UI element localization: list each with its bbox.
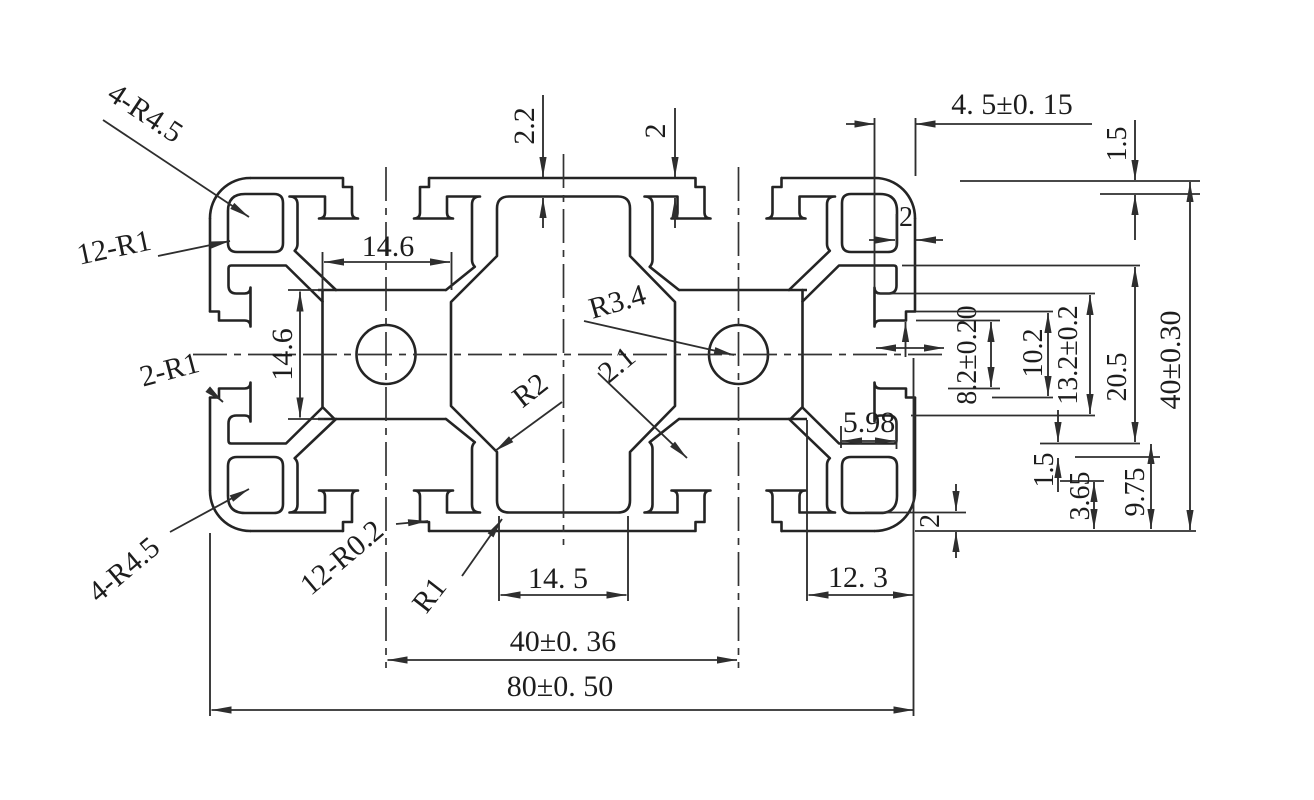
left face lower segment [209,398,212,492]
top face right segment [781,177,875,180]
right end slot lower boundary [803,383,916,444]
left face upper segment [209,218,212,312]
svg-text:14.6: 14.6 [266,328,299,381]
bottom face left segment [250,530,343,533]
svg-text:14.6: 14.6 [362,230,415,263]
dim 5.98 ext lines [840,426,842,448]
svg-text:40±0. 36: 40±0. 36 [510,625,616,658]
right square cavity top edge [679,289,807,292]
top face left segment [250,177,343,180]
dim 14.5 dimension line [501,594,627,596]
bottom face right segment [781,530,875,533]
svg-text:9.75: 9.75 [1120,468,1151,517]
vertical centerline left hole [385,167,387,668]
svg-text:12. 3: 12. 3 [828,561,888,594]
svg-text:20.5: 20.5 [1102,353,1133,402]
top slot 2 left boundary [645,178,711,290]
top slot 1 right boundary [414,178,480,290]
dim 14.6 left dimension line [299,292,301,418]
dim 12.3 ext lines [806,420,808,601]
dim 14.6 left extension lines [288,289,324,291]
label R1 leader [462,519,502,576]
svg-text:14. 5: 14. 5 [528,562,588,595]
label 4-R4.5 bottom-left leader [170,489,249,532]
dim 5.98 dimension line [842,440,895,442]
svg-text:2: 2 [639,124,672,139]
svg-text:1.5: 1.5 [1029,453,1060,488]
middle void boundary [451,197,675,513]
dim 8.2 inner arrow at slot mouth [905,322,907,357]
svg-text:10.2: 10.2 [1018,329,1049,378]
right square cavity bottom edge [679,418,807,421]
bottom slot 1 left boundary [290,419,359,531]
dim 1.5 top callout [1134,120,1136,180]
vertical centerline right hole [738,167,740,668]
dim 13.2 ext lines [877,293,1095,295]
right end slot upper boundary [803,266,916,327]
dim 10.2 ext lines [916,311,1053,313]
dim 8.2 ext lines [916,320,1000,322]
dim 14.6 top extension lines [322,252,324,290]
dim 1.5 top ext lines [960,180,1200,182]
profile outer corner arc bottom-right [875,491,915,531]
dim 80 dimension line [212,709,914,711]
top slot 2 right boundary [767,178,836,290]
dim 4.5 dimension line [846,123,875,125]
center hole circle left (R3.4) [357,325,416,384]
dim 40 bottom dimension line [388,659,738,661]
dim 2.2 callout lines [542,95,544,177]
profile outer corner arc top-right [875,178,915,218]
dim 20.5 ext lines [902,265,1140,267]
right face lower segment [914,398,917,492]
dim 3.65 callout [1093,482,1095,529]
center hole circle right (R3.4) [709,325,768,384]
dim 80 ext line left [209,533,211,716]
corner cavity bottom-right [842,457,897,513]
dim 1.5 bottom ext line [1075,456,1160,458]
dim 40 right dimension line [1189,182,1191,530]
label 2-R1 leader [208,389,223,402]
top face middle segment [429,177,695,180]
dim 2 bottom callout [955,484,957,511]
svg-text:2: 2 [915,514,946,528]
svg-text:5.98: 5.98 [843,406,896,439]
left square cavity top edge [318,289,446,292]
dim 4.5 extension lines [874,118,876,290]
dim 12.3 dimension line [809,594,914,596]
dim 10.2 dimension line [1047,313,1049,396]
left end slot lower boundary [210,383,323,444]
dim 2 right dimension line [869,239,895,241]
svg-text:1.5: 1.5 [1102,127,1133,162]
label 12-R0.2 leader [396,521,428,524]
dim 2 top callout lines [674,108,676,177]
profile outer corner arc top-left [210,178,250,218]
svg-text:4. 5±0. 15: 4. 5±0. 15 [951,88,1072,121]
corner cavity top-left [228,194,283,252]
right face upper segment [914,218,917,312]
small double arrow line on centerline right end [876,347,944,349]
dim 14.6 top dimension line [324,261,450,263]
label R2 leader [495,402,562,451]
svg-text:2.2: 2.2 [508,107,541,145]
vertical centerline profile middle [563,154,565,545]
bottom slot 2 left boundary [645,419,711,531]
svg-text:80±0. 50: 80±0. 50 [507,670,613,703]
corner cavity top-right [842,194,897,252]
svg-text:2: 2 [899,202,913,233]
label 2.1 leader [598,373,687,458]
bottom slot 2 right boundary [767,419,836,531]
dim 40 right ext line bottom [915,530,1196,532]
horizontal centerline [193,354,943,356]
profile outer corner arc bottom-left [210,491,250,531]
left square cavity left edge with lower chamfer [323,290,335,419]
top slot 1 left boundary [290,178,359,290]
dim 2 bottom ext line [865,512,966,514]
svg-text:40±0.30: 40±0.30 [1154,311,1187,410]
svg-text:13.2±0.2: 13.2±0.2 [1053,305,1084,404]
dim 20.5 dimension line [1134,267,1136,442]
left square cavity bottom edge [318,418,446,421]
bottom face middle segment [429,530,695,533]
dim 13.2 dimension line [1089,295,1091,414]
label 12-R1 leader [158,241,230,256]
dim 1.5 bottom callout [1057,410,1059,442]
label 4-R4.5 top-left leader [103,120,249,217]
dim 14.5 ext lines [498,516,500,601]
svg-text:8.2±0.20: 8.2±0.20 [952,305,983,404]
corner cavity bottom-left [228,457,283,513]
right square cavity right edge with lower chamfer [791,290,803,419]
dim 3.65 ext line [1060,480,1104,482]
bottom slot 1 right boundary [414,419,480,531]
dim 9.75 dimension line [1150,444,1152,529]
left end slot upper boundary [210,266,323,327]
label R3.4 leader [584,321,734,355]
svg-text:3.65: 3.65 [1065,472,1096,521]
dim 2 right ext line [896,214,898,248]
dim 8.2 dimension line [990,322,992,387]
